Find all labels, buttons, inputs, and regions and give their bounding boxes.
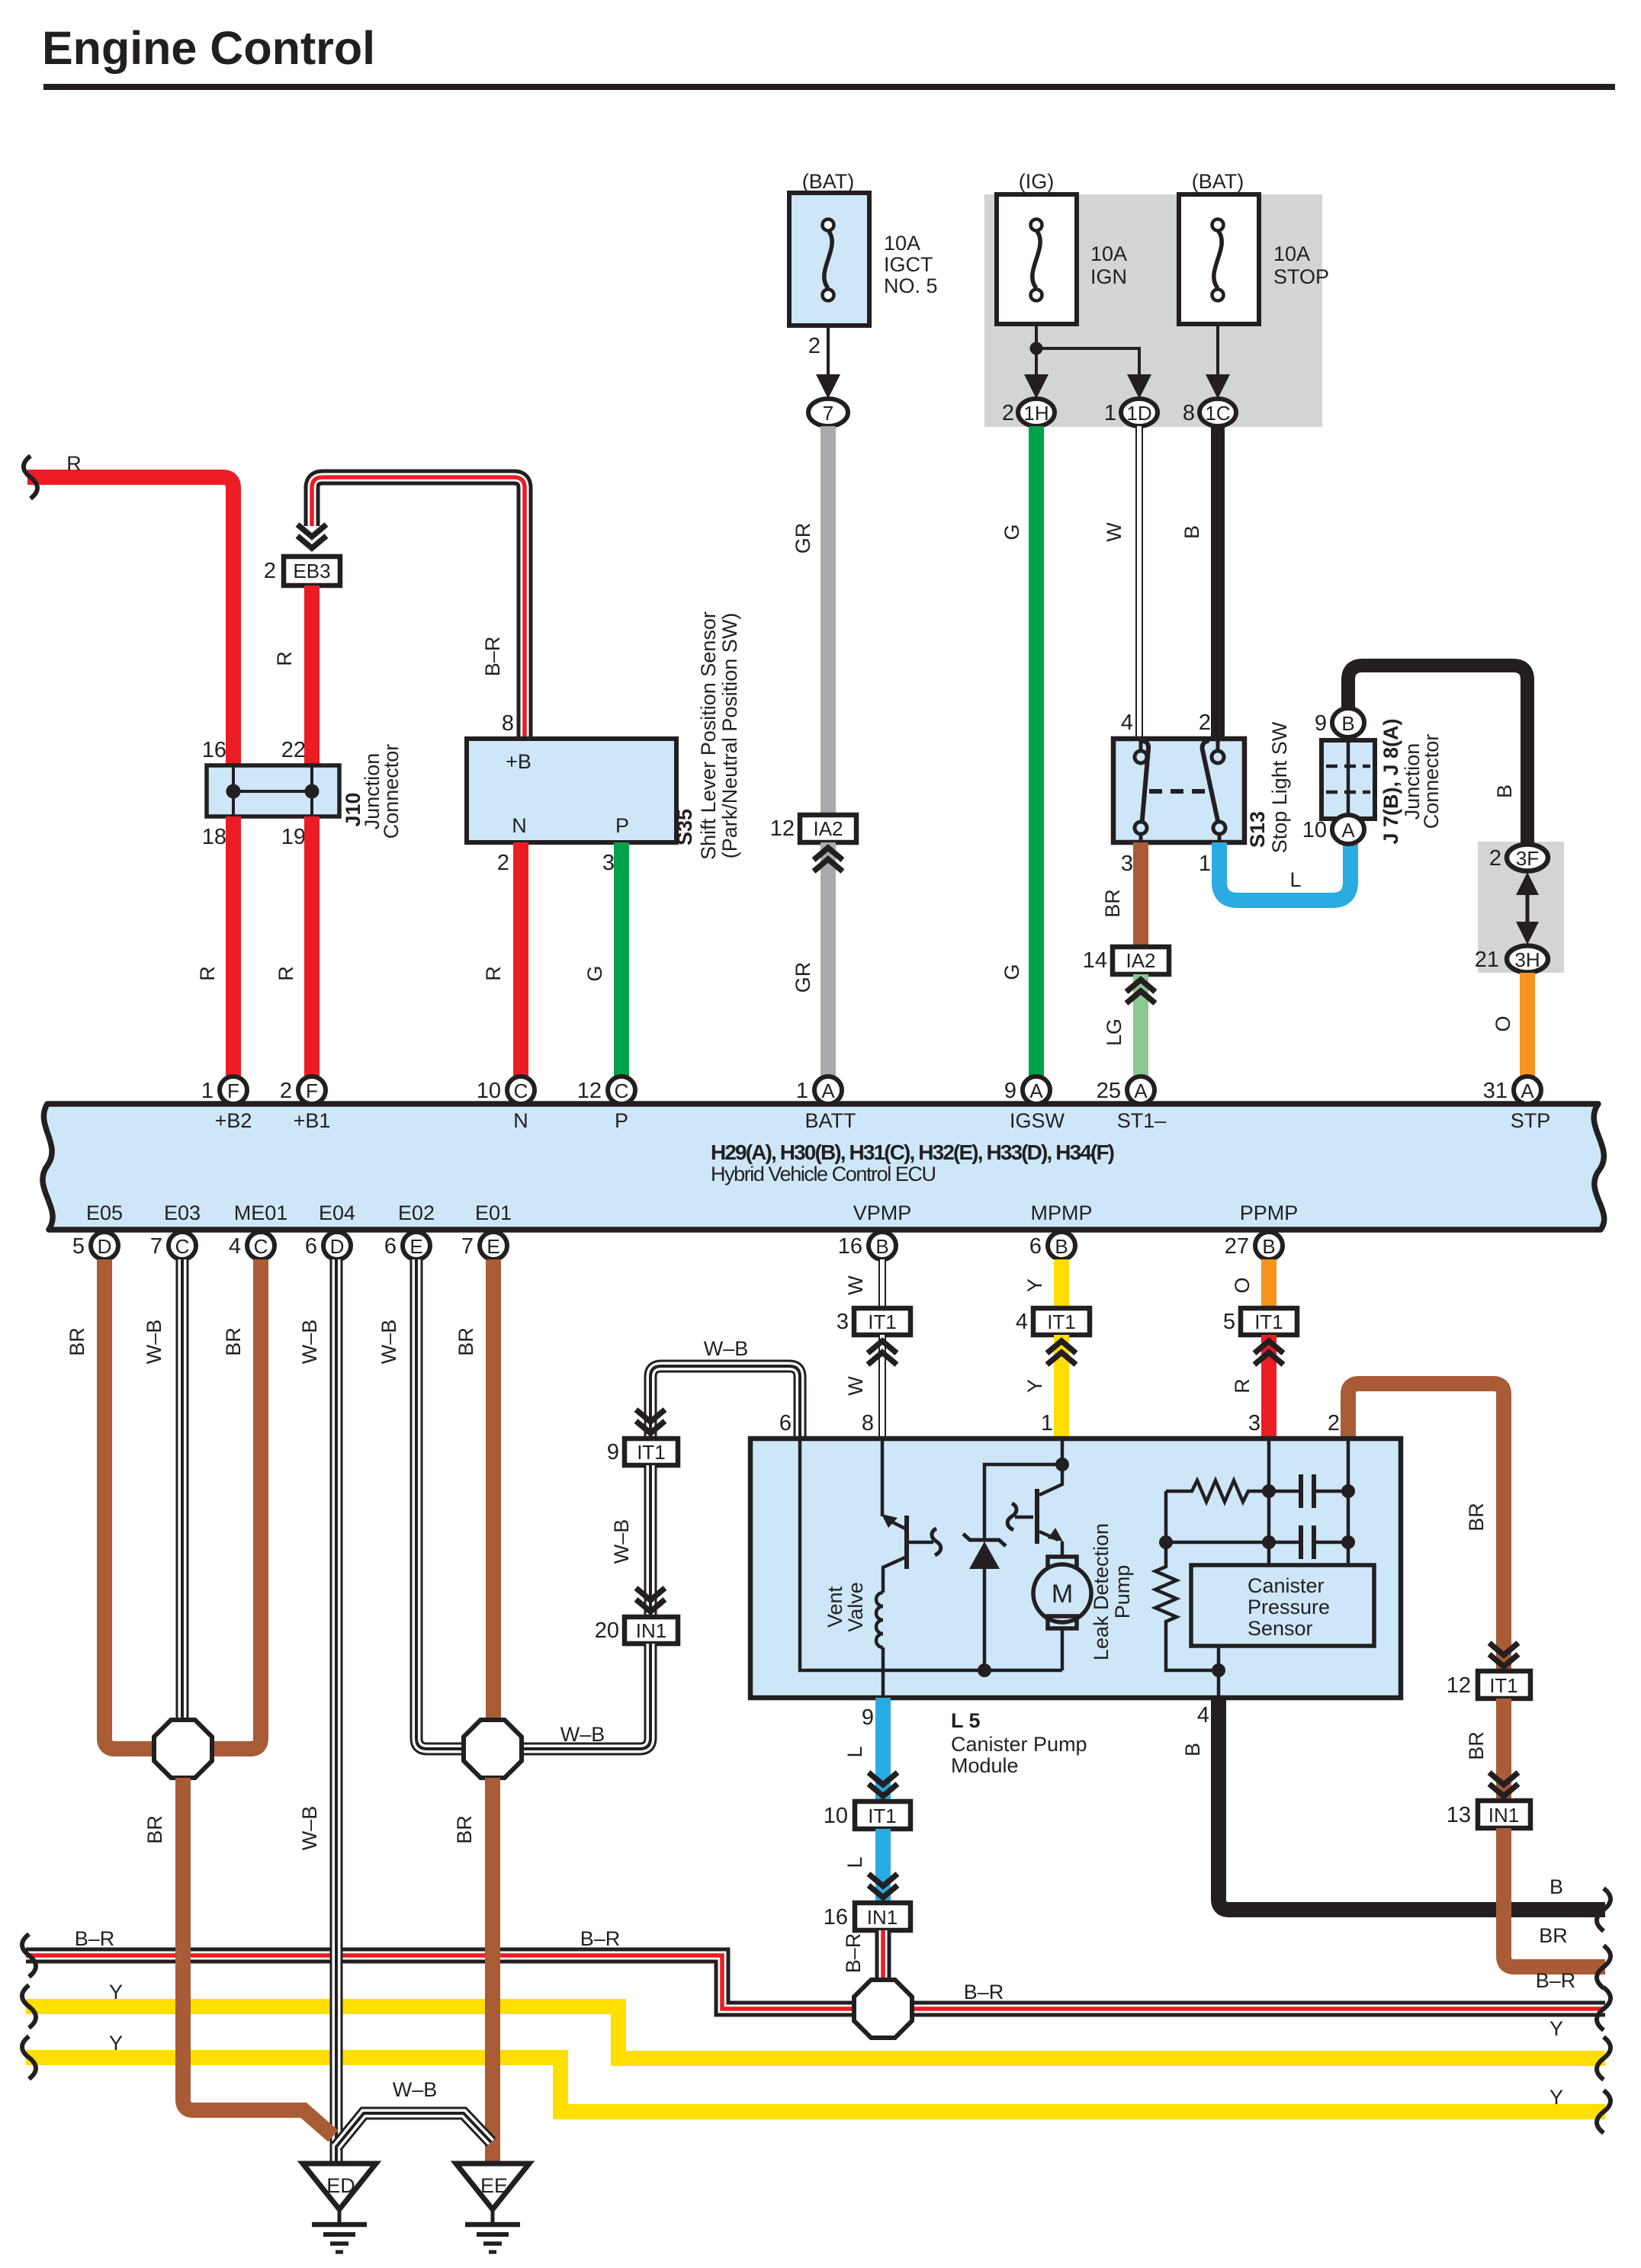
connector pin A (J8) bbox=[1302, 815, 1364, 844]
gray background behind 3F/3H connectors bbox=[1478, 842, 1564, 973]
label L 5 Canister Pump Module bbox=[951, 1709, 1087, 1777]
ECU pin E01 bbox=[461, 1201, 512, 1259]
svg-text:9: 9 bbox=[1004, 1079, 1016, 1103]
connector EB3 bbox=[264, 557, 340, 585]
ECU pin MPMP bbox=[1029, 1201, 1093, 1259]
connector pin B (J7) bbox=[1315, 708, 1364, 737]
svg-text:GR: GR bbox=[792, 962, 814, 993]
harness break squiggle B-R left bbox=[22, 1934, 36, 1977]
wire L from S13 pin 1 to J7 A bbox=[1219, 842, 1350, 900]
svg-text:4: 4 bbox=[229, 1234, 241, 1259]
svg-text:P: P bbox=[615, 814, 629, 837]
svg-text:6: 6 bbox=[1029, 1234, 1042, 1259]
wire B from pin 1C to S13 pin 2 bbox=[1211, 426, 1225, 739]
svg-text:5: 5 bbox=[72, 1234, 85, 1259]
fuse STOP 10A bbox=[1179, 170, 1329, 324]
svg-text:N: N bbox=[513, 1109, 528, 1132]
connector pin 1D bbox=[1104, 399, 1158, 426]
svg-text:PPMP: PPMP bbox=[1240, 1201, 1299, 1224]
svg-text:B: B bbox=[1055, 1235, 1068, 1258]
svg-text:10A: 10A bbox=[884, 232, 920, 255]
svg-text:W–B: W–B bbox=[704, 1337, 749, 1360]
svg-text:BR: BR bbox=[222, 1327, 245, 1356]
svg-text:B–R: B–R bbox=[75, 1927, 115, 1950]
svg-text:C: C bbox=[615, 1079, 629, 1102]
svg-text:W–B: W–B bbox=[298, 1806, 321, 1851]
svg-text:MPMP: MPMP bbox=[1031, 1201, 1093, 1224]
svg-text:16: 16 bbox=[838, 1234, 862, 1259]
wire GR from IA2 to ECU BATT bbox=[820, 842, 836, 1076]
wire Y bus upper bbox=[26, 2007, 1605, 2058]
svg-text:10: 10 bbox=[824, 1804, 848, 1828]
svg-text:Canister Pump: Canister Pump bbox=[951, 1733, 1087, 1756]
wire W-B from ECU E04 to ground ED bbox=[330, 1259, 343, 2164]
harness break squiggle Y1 right bbox=[1597, 2037, 1610, 2080]
svg-text:B–R: B–R bbox=[842, 1933, 865, 1974]
svg-text:B: B bbox=[1341, 712, 1354, 735]
svg-text:B: B bbox=[1262, 1235, 1275, 1258]
svg-text:M: M bbox=[1052, 1580, 1073, 1609]
svg-text:EB3: EB3 bbox=[293, 560, 330, 582]
junction connector J10 bbox=[207, 765, 339, 816]
svg-text:F: F bbox=[306, 1079, 318, 1102]
svg-text:B: B bbox=[1493, 784, 1516, 798]
wire Y bus lower bbox=[26, 2058, 1605, 2112]
chevron arrows below IT1 3 bbox=[868, 1341, 897, 1365]
svg-text:22: 22 bbox=[281, 738, 306, 762]
inductor vent valve coil bbox=[876, 1593, 883, 1647]
svg-text:W–B: W–B bbox=[377, 1320, 400, 1365]
svg-text:3F: 3F bbox=[1516, 847, 1539, 870]
svg-text:9: 9 bbox=[1315, 711, 1327, 736]
wire L from IT1 10 to IN1 16 bbox=[875, 1829, 891, 1903]
svg-text:F: F bbox=[227, 1079, 239, 1102]
label Leak Detection Pump bbox=[1090, 1523, 1134, 1660]
harness break squiggle B-R right bbox=[1597, 1987, 1610, 2030]
svg-text:2: 2 bbox=[808, 334, 820, 358]
resistor R2 (vertical) bbox=[1155, 1542, 1219, 1670]
svg-text:BR: BR bbox=[1101, 889, 1124, 918]
svg-text:B–R: B–R bbox=[1536, 1969, 1576, 1992]
svg-text:7: 7 bbox=[823, 402, 833, 425]
connector IT1 pin 10 bbox=[824, 1801, 910, 1829]
svg-text:3: 3 bbox=[1248, 1411, 1260, 1436]
chevron arrows into EB3 bbox=[297, 524, 326, 548]
wire W-B from ECU E02 to splice bbox=[416, 1259, 468, 1749]
splice J (right, BR) bbox=[464, 1720, 522, 1778]
wire GR from pin 7 to IA2 bbox=[820, 426, 836, 815]
transistor Q2 (pump motor driver) bbox=[1007, 1439, 1063, 1558]
svg-text:IT1: IT1 bbox=[868, 1310, 897, 1333]
svg-text:Y: Y bbox=[1549, 2017, 1563, 2040]
svg-text:BR: BR bbox=[453, 1815, 476, 1844]
svg-text:1H: 1H bbox=[1023, 402, 1049, 425]
wire Y from IT1 4 to pump pin 1 bbox=[1054, 1335, 1069, 1439]
svg-text:3H: 3H bbox=[1514, 948, 1540, 971]
svg-text:B–R: B–R bbox=[580, 1927, 621, 1950]
ECU pin VPMP bbox=[838, 1201, 912, 1259]
svg-text:+B1: +B1 bbox=[294, 1109, 331, 1132]
svg-text:G: G bbox=[1000, 964, 1023, 980]
svg-text:EE: EE bbox=[480, 2174, 508, 2197]
svg-text:8: 8 bbox=[502, 711, 514, 736]
svg-text:J 7(B), J 8(A): J 7(B), J 8(A) bbox=[1379, 718, 1402, 844]
pump internal: second row link bbox=[1166, 1541, 1348, 1545]
svg-text:W–B: W–B bbox=[610, 1519, 633, 1564]
wire Y from ECU MPMP to IT1 bbox=[1054, 1259, 1069, 1308]
svg-text:(BAT): (BAT) bbox=[1192, 170, 1244, 193]
svg-text:R: R bbox=[482, 966, 505, 981]
svg-text:10: 10 bbox=[477, 1079, 501, 1103]
label Vent Valve bbox=[824, 1582, 867, 1632]
svg-text:W–B: W–B bbox=[143, 1320, 165, 1365]
canister pump module L5 bbox=[750, 1439, 1401, 1698]
svg-text:Leak Detection: Leak Detection bbox=[1090, 1523, 1113, 1660]
svg-text:IN1: IN1 bbox=[867, 1906, 898, 1929]
connector IT1 pin 9 bbox=[607, 1439, 678, 1465]
svg-text:BR: BR bbox=[1539, 1924, 1568, 1947]
svg-text:E04: E04 bbox=[319, 1201, 355, 1224]
svg-text:(Park/Neutral Position SW): (Park/Neutral Position SW) bbox=[718, 613, 741, 859]
wire W-B link between ED and EE leads bbox=[336, 2113, 491, 2147]
svg-text:1: 1 bbox=[1199, 852, 1211, 876]
stop light switch S13 bbox=[1113, 739, 1244, 842]
svg-text:10A: 10A bbox=[1273, 242, 1310, 265]
svg-text:IN1: IN1 bbox=[1488, 1804, 1519, 1827]
svg-text:16: 16 bbox=[202, 738, 226, 762]
capacitor C1 bbox=[1269, 1474, 1348, 1508]
svg-text:19: 19 bbox=[281, 825, 306, 849]
svg-text:BR: BR bbox=[143, 1815, 166, 1844]
svg-text:A: A bbox=[1134, 1079, 1148, 1102]
title underline rule bbox=[43, 84, 1615, 90]
pump internal: pin 3 line bbox=[1267, 1439, 1271, 1491]
svg-text:B: B bbox=[1549, 1875, 1563, 1898]
svg-text:1: 1 bbox=[796, 1079, 808, 1103]
svg-text:IN1: IN1 bbox=[636, 1619, 666, 1642]
ECU pin STP bbox=[1483, 1076, 1551, 1132]
wire W from IT1 3 to pump pin 8 bbox=[878, 1335, 886, 1439]
wire B-R bus (bottom, left to right with jog) bbox=[26, 1955, 1605, 2009]
svg-text:31: 31 bbox=[1483, 1079, 1508, 1103]
harness break squiggle at R wire bbox=[24, 456, 37, 499]
svg-text:B: B bbox=[875, 1235, 888, 1258]
svg-text:10: 10 bbox=[1302, 818, 1327, 842]
ECU pin PPMP bbox=[1225, 1201, 1299, 1259]
wire R from S35 N to ECU N bbox=[513, 842, 528, 1076]
chevron arrows above IN1 20 bbox=[636, 1588, 665, 1612]
svg-text:B: B bbox=[1181, 1743, 1204, 1756]
wire sensor to pump pin 4 bbox=[1217, 1646, 1221, 1698]
svg-text:E03: E03 bbox=[164, 1201, 201, 1224]
zener diode D1 bbox=[963, 1458, 1069, 1677]
label J10 Junction Connector bbox=[342, 744, 403, 839]
wire BR from S13 pin 3 to IA2 bbox=[1133, 842, 1148, 947]
svg-text:A: A bbox=[1521, 1079, 1534, 1102]
svg-text:2: 2 bbox=[264, 559, 276, 583]
connector IA2 pin 14 bbox=[1083, 947, 1169, 974]
wire O from 3H to ECU STP bbox=[1520, 973, 1535, 1076]
svg-text:IA2: IA2 bbox=[813, 817, 843, 840]
svg-text:R: R bbox=[66, 452, 82, 475]
connector IT1 pin 5 bbox=[1223, 1308, 1297, 1335]
svg-text:2: 2 bbox=[1199, 711, 1211, 735]
svg-text:14: 14 bbox=[1083, 948, 1107, 973]
svg-text:25: 25 bbox=[1097, 1079, 1121, 1103]
svg-text:1D: 1D bbox=[1126, 402, 1151, 425]
svg-text:C: C bbox=[175, 1235, 190, 1258]
svg-text:12: 12 bbox=[770, 816, 795, 841]
svg-text:4: 4 bbox=[1121, 711, 1133, 735]
wire BR from ECU ME01 to splice bbox=[207, 1259, 261, 1749]
svg-text:Engine Control: Engine Control bbox=[42, 22, 375, 74]
wire O from ECU PPMP to IT1 bbox=[1261, 1259, 1277, 1308]
svg-text:IT1: IT1 bbox=[1489, 1674, 1518, 1697]
svg-text:27: 27 bbox=[1225, 1234, 1249, 1259]
chevron arrows below IA2 12 bbox=[814, 848, 843, 871]
svg-text:BR: BR bbox=[454, 1327, 477, 1356]
svg-text:Sensor: Sensor bbox=[1248, 1617, 1313, 1640]
fuse IGN 10A bbox=[997, 170, 1127, 324]
svg-text:IT1: IT1 bbox=[1047, 1310, 1076, 1333]
pump internal: sensor feed line bbox=[1166, 1491, 1269, 1565]
svg-text:Y: Y bbox=[1549, 2086, 1563, 2109]
wire fuse STOP to 1C bbox=[1206, 326, 1230, 399]
ECU pin +B2 bbox=[201, 1076, 252, 1132]
svg-text:BR: BR bbox=[1465, 1503, 1488, 1532]
wire G from pin 1H to ECU IGSW bbox=[1029, 426, 1044, 1076]
wire BR from ECU E01 to splice bbox=[486, 1259, 501, 1723]
svg-text:W: W bbox=[844, 1275, 867, 1295]
svg-text:6: 6 bbox=[779, 1411, 792, 1436]
harness break squiggle Y2 left bbox=[22, 2036, 36, 2079]
ECU pin +B1 bbox=[280, 1076, 331, 1132]
chevron arrows above IT1 9 bbox=[636, 1410, 665, 1433]
svg-text:ED: ED bbox=[326, 2174, 355, 2197]
fuse IGCT NO.5 10A bbox=[789, 170, 938, 326]
svg-text:B–R: B–R bbox=[964, 1981, 1004, 2003]
svg-text:(BAT): (BAT) bbox=[802, 170, 855, 193]
svg-text:1: 1 bbox=[1041, 1411, 1053, 1436]
ECU pin ME01 bbox=[229, 1201, 287, 1259]
svg-text:Module: Module bbox=[951, 1754, 1019, 1777]
wire R from EB3 to J10 pin 22 bbox=[304, 585, 320, 765]
svg-text:3: 3 bbox=[602, 851, 615, 875]
wire L from pump pin 9 to IT1 10 bbox=[875, 1698, 891, 1801]
svg-text:LG: LG bbox=[1103, 1019, 1126, 1046]
svg-text:ST1–: ST1– bbox=[1117, 1109, 1167, 1132]
svg-text:IGN: IGN bbox=[1090, 265, 1127, 288]
svg-text:Y: Y bbox=[109, 1981, 123, 2003]
wire BR from IT1 12 to IN1 13 bbox=[1496, 1699, 1511, 1801]
ECU pin E02 bbox=[384, 1201, 435, 1259]
svg-text:4: 4 bbox=[1016, 1310, 1028, 1334]
svg-text:3: 3 bbox=[1121, 852, 1133, 876]
svg-text:G: G bbox=[583, 965, 606, 981]
svg-text:18: 18 bbox=[202, 825, 226, 849]
wire B from pump pin 4 to harness right bbox=[1219, 1698, 1605, 1910]
svg-text:20: 20 bbox=[595, 1618, 619, 1643]
wire B-R from IN1 16 to splice bbox=[875, 1930, 891, 1982]
splice J (left, BR) bbox=[154, 1720, 212, 1778]
svg-text:8: 8 bbox=[1183, 401, 1195, 425]
svg-text:+B: +B bbox=[506, 750, 531, 773]
gray relay-block background (IGN/STOP fuses) bbox=[984, 194, 1322, 427]
svg-text:VPMP: VPMP bbox=[853, 1201, 912, 1224]
svg-text:STOP: STOP bbox=[1273, 265, 1329, 288]
svg-text:L: L bbox=[843, 1856, 866, 1868]
transistor Q1 (vent valve driver) bbox=[882, 1514, 941, 1593]
svg-text:Connector: Connector bbox=[1420, 734, 1443, 829]
wire LG from IA2 to ECU ST1- bbox=[1133, 974, 1148, 1076]
chevron arrows above IN1 16 bbox=[869, 1874, 898, 1897]
wire BR from IN1 13 to harness right bbox=[1504, 1828, 1605, 1967]
pump internal: vent valve drive line (pin 8) bbox=[881, 1439, 885, 1516]
wire R from harness break to J10 pin 16 bbox=[27, 477, 233, 765]
svg-text:BR: BR bbox=[1465, 1731, 1488, 1760]
svg-text:S13: S13 bbox=[1246, 811, 1269, 848]
svg-text:O: O bbox=[1231, 1277, 1254, 1293]
svg-text:Canister: Canister bbox=[1248, 1574, 1325, 1597]
shift lever position sensor S35 bbox=[467, 739, 676, 842]
svg-text:W–B: W–B bbox=[298, 1320, 321, 1365]
wire W from ECU VPMP to IT1 bbox=[878, 1259, 886, 1308]
wire W-B from ECU E03 to splice bbox=[176, 1259, 189, 1723]
harness break squiggle BR right bbox=[1597, 1946, 1610, 1988]
svg-text:1C: 1C bbox=[1205, 402, 1230, 425]
svg-text:W–B: W–B bbox=[393, 2078, 438, 2101]
wire fuse IGN to 1H and branch to 1D bbox=[1024, 326, 1151, 399]
svg-text:R: R bbox=[273, 651, 296, 666]
wire fuse IGCT to connector 7 bbox=[808, 326, 840, 399]
hybrid vehicle control ECU body bbox=[43, 1104, 1604, 1230]
ECU pin IGSW bbox=[1004, 1076, 1065, 1132]
svg-text:E: E bbox=[487, 1235, 499, 1258]
svg-text:Hybrid Vehicle Control ECU: Hybrid Vehicle Control ECU bbox=[711, 1163, 936, 1185]
svg-text:B: B bbox=[1180, 525, 1203, 539]
chevron arrows above IN1 13 bbox=[1489, 1772, 1518, 1796]
svg-text:8: 8 bbox=[862, 1411, 874, 1436]
svg-text:W: W bbox=[844, 1376, 867, 1396]
svg-text:9: 9 bbox=[862, 1705, 874, 1730]
svg-text:IGCT: IGCT bbox=[884, 253, 933, 276]
svg-text:2: 2 bbox=[1328, 1411, 1340, 1436]
harness break squiggle Y2 right bbox=[1597, 2090, 1610, 2133]
svg-text:L: L bbox=[1289, 868, 1301, 891]
chevron arrows below IA2 14 bbox=[1126, 980, 1155, 1003]
svg-text:+B2: +B2 bbox=[215, 1109, 252, 1132]
ECU pin BATT bbox=[796, 1076, 856, 1132]
svg-text:D: D bbox=[98, 1235, 112, 1258]
connector 3F bbox=[1489, 845, 1548, 871]
svg-text:H29(A), H30(B), H31(C), H32(E): H29(A), H30(B), H31(C), H32(E), H33(D), … bbox=[711, 1140, 1115, 1164]
svg-text:Y: Y bbox=[109, 2032, 123, 2055]
wire W from pin 1D to S13 pin 4 bbox=[1135, 426, 1143, 739]
svg-text:10A: 10A bbox=[1090, 242, 1127, 265]
svg-text:2: 2 bbox=[1489, 846, 1501, 871]
wire R from J10 pin 18 to ECU +B2 bbox=[226, 816, 241, 1076]
ECU pin E03 bbox=[150, 1201, 201, 1259]
connector pin 1H bbox=[1002, 399, 1055, 426]
svg-text:STP: STP bbox=[1511, 1109, 1551, 1132]
svg-text:3: 3 bbox=[837, 1310, 849, 1334]
ECU pin N bbox=[477, 1076, 535, 1132]
wire BR from splice to ground ED bbox=[183, 1778, 333, 2136]
wire W-B from pump pin 6 to IT1 9 bbox=[650, 1366, 800, 1439]
svg-text:B–R: B–R bbox=[481, 637, 504, 677]
connector IT1 pin 4 bbox=[1016, 1308, 1090, 1335]
svg-text:P: P bbox=[615, 1109, 628, 1132]
svg-text:N: N bbox=[512, 814, 527, 837]
svg-text:2: 2 bbox=[280, 1079, 292, 1103]
ECU pin ST1- bbox=[1097, 1076, 1167, 1132]
label S13 Stop Light SW bbox=[1246, 721, 1291, 853]
svg-text:Valve: Valve bbox=[844, 1582, 867, 1632]
junction dots in pump bbox=[1159, 1484, 1355, 1677]
wire B-R from EB3 to S35 +B bbox=[312, 477, 525, 739]
capacitor C2 bbox=[1301, 1525, 1314, 1559]
chevron arrows above IT1 12 bbox=[1489, 1643, 1518, 1667]
junction connector J7(B) J8(A) bbox=[1321, 740, 1375, 819]
svg-text:Stop Light SW: Stop Light SW bbox=[1268, 721, 1291, 853]
connector 3H bbox=[1475, 946, 1548, 973]
svg-text:2: 2 bbox=[1002, 401, 1014, 425]
svg-text:1: 1 bbox=[1104, 401, 1116, 425]
connector IN1 pin 13 bbox=[1447, 1801, 1530, 1828]
wire R from J10 pin 19 to ECU +B1 bbox=[304, 816, 320, 1076]
svg-text:L: L bbox=[843, 1746, 866, 1757]
connector IT1 pin 12 bbox=[1447, 1671, 1530, 1699]
svg-text:6: 6 bbox=[305, 1234, 317, 1259]
svg-text:E: E bbox=[409, 1235, 422, 1258]
svg-text:IA2: IA2 bbox=[1126, 949, 1155, 972]
connector IN1 pin 16 bbox=[824, 1903, 910, 1930]
svg-text:D: D bbox=[330, 1235, 345, 1258]
pump internal: pin 6 rail bbox=[800, 1439, 1062, 1670]
svg-text:IGSW: IGSW bbox=[1010, 1109, 1065, 1132]
svg-text:A: A bbox=[1341, 819, 1355, 842]
ECU pin E04 bbox=[305, 1201, 355, 1259]
svg-text:W: W bbox=[1103, 522, 1126, 542]
svg-text:R: R bbox=[275, 966, 297, 981]
label ECU header bbox=[711, 1140, 1115, 1185]
wire BR from pump pin 2 to IT1 12 bbox=[1348, 1384, 1504, 1671]
chevron arrows below IT1 5 bbox=[1254, 1341, 1283, 1365]
svg-text:C: C bbox=[254, 1235, 268, 1258]
svg-text:IT1: IT1 bbox=[637, 1441, 666, 1464]
ground ED bbox=[303, 2164, 376, 2252]
pump internal: pin 2 line bbox=[1347, 1439, 1350, 1565]
svg-text:S35: S35 bbox=[673, 809, 696, 845]
svg-text:BATT: BATT bbox=[805, 1109, 856, 1132]
wire vent valve to pump pin 9 bbox=[882, 1647, 885, 1698]
svg-text:5: 5 bbox=[1223, 1310, 1235, 1334]
svg-text:1: 1 bbox=[201, 1079, 214, 1103]
ECU pin P bbox=[577, 1076, 635, 1132]
label J7(B) J8(A) Junction Connector bbox=[1379, 718, 1443, 844]
svg-text:IT1: IT1 bbox=[1254, 1310, 1283, 1333]
wire W-B from IN1 20 to splice bbox=[517, 1644, 650, 1749]
chevron arrows above IT1 10 bbox=[869, 1772, 898, 1796]
svg-text:W–B: W–B bbox=[560, 1723, 605, 1746]
svg-text:R: R bbox=[1231, 1378, 1254, 1394]
ground EE bbox=[456, 2164, 529, 2252]
svg-text:NO. 5: NO. 5 bbox=[884, 274, 938, 297]
splice J (B-R bus) bbox=[854, 1980, 912, 2038]
svg-text:Vent: Vent bbox=[824, 1586, 846, 1628]
label S35 Shift Lever Position Sensor bbox=[673, 611, 741, 860]
svg-text:ME01: ME01 bbox=[234, 1201, 288, 1224]
